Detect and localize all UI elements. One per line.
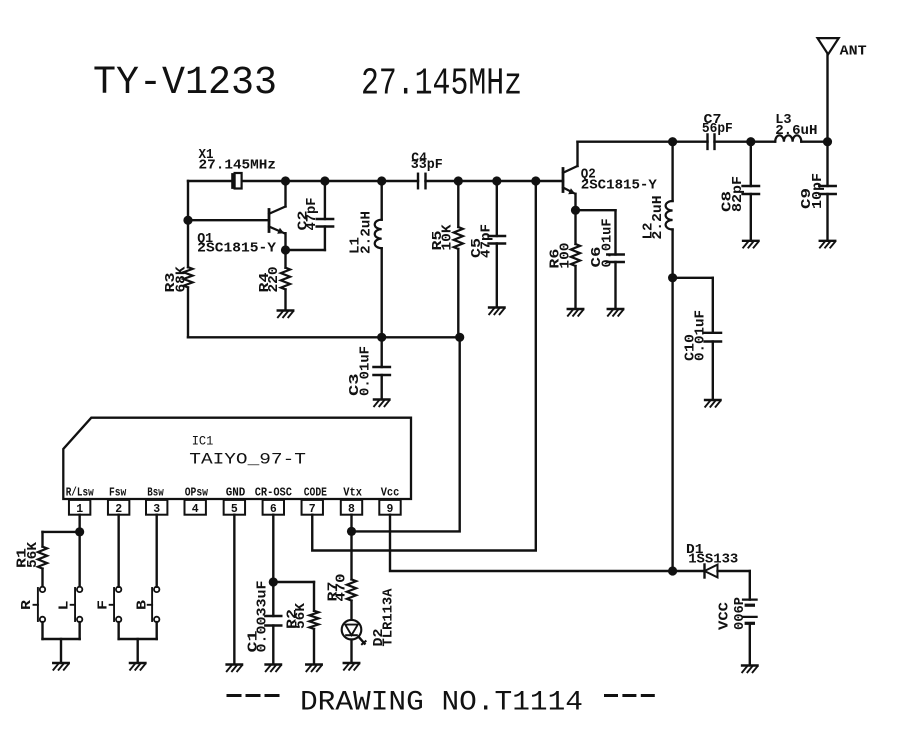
svg-text:R/Lsw: R/Lsw — [66, 486, 94, 499]
svg-text:Fsw: Fsw — [109, 486, 126, 499]
svg-text:TAIYO_97-T: TAIYO_97-T — [189, 451, 306, 469]
svg-text:47pF: 47pF — [478, 224, 494, 258]
svg-text:L: L — [57, 601, 73, 611]
svg-text:IC1: IC1 — [192, 434, 214, 449]
svg-text:56K: 56K — [25, 542, 41, 568]
svg-text:0.01uF: 0.01uF — [358, 346, 374, 396]
svg-text:ANT: ANT — [840, 43, 868, 59]
svg-text:47pF: 47pF — [304, 198, 320, 231]
svg-text:56pF: 56pF — [702, 121, 733, 137]
svg-text:68K: 68K — [174, 266, 190, 292]
svg-text:100: 100 — [558, 243, 574, 269]
svg-text:56K: 56K — [293, 603, 309, 629]
svg-text:82pF: 82pF — [730, 176, 746, 212]
svg-text:OPsw: OPsw — [185, 486, 208, 499]
svg-text:4: 4 — [192, 503, 199, 516]
svg-text:006P: 006P — [732, 597, 748, 630]
svg-text:1SS133: 1SS133 — [688, 552, 738, 568]
svg-text:CR-OSC: CR-OSC — [255, 486, 292, 499]
svg-text:27.145MHz: 27.145MHz — [361, 63, 522, 106]
svg-text:33pF: 33pF — [411, 157, 443, 173]
svg-text:2.2uH: 2.2uH — [650, 196, 666, 240]
svg-text:0.0033uF: 0.0033uF — [254, 581, 270, 653]
svg-text:VCC: VCC — [717, 601, 733, 630]
svg-text:Bsw: Bsw — [147, 486, 163, 499]
svg-text:2.6uH: 2.6uH — [775, 123, 817, 139]
svg-text:R: R — [19, 599, 35, 610]
svg-text:DRAWING NO.T1114: DRAWING NO.T1114 — [300, 688, 583, 719]
svg-text:0.01uF: 0.01uF — [600, 219, 616, 268]
svg-text:Vtx: Vtx — [343, 486, 362, 499]
svg-text:470: 470 — [334, 574, 350, 602]
svg-text:10K: 10K — [439, 224, 455, 250]
svg-text:GND: GND — [226, 486, 246, 499]
svg-text:0.01uF: 0.01uF — [693, 310, 709, 361]
svg-text:10pF: 10pF — [810, 173, 826, 209]
svg-text:TY-V1233: TY-V1233 — [93, 61, 277, 106]
svg-text:2.2uH: 2.2uH — [358, 211, 374, 254]
svg-text:27.145MHz: 27.145MHz — [199, 157, 277, 173]
svg-text:2SC1815-Y: 2SC1815-Y — [581, 177, 657, 193]
svg-text:220: 220 — [266, 267, 282, 293]
svg-text:B: B — [135, 599, 151, 610]
svg-text:F: F — [95, 600, 111, 610]
svg-text:Vcc: Vcc — [381, 486, 400, 499]
svg-text:TLR113A: TLR113A — [381, 588, 397, 646]
svg-text:2SC1815-Y: 2SC1815-Y — [197, 241, 276, 257]
svg-text:CODE: CODE — [304, 486, 327, 499]
